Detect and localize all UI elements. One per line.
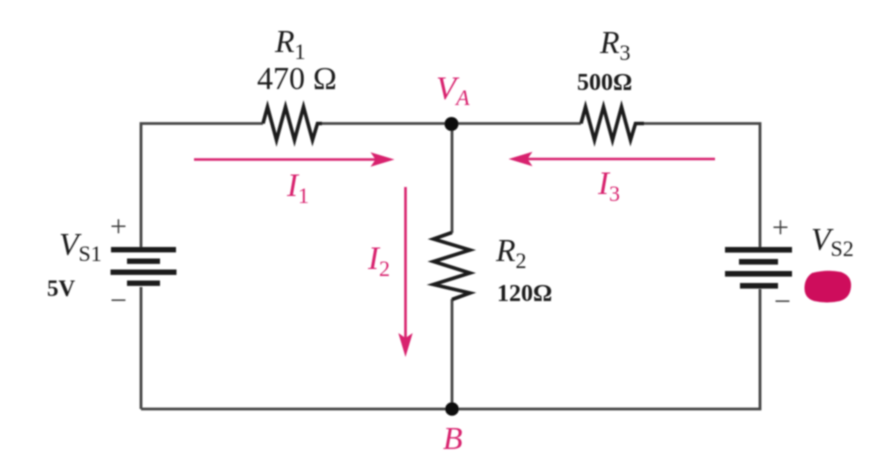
svg-text:−: −	[774, 285, 791, 318]
svg-text:+: +	[110, 210, 127, 243]
svg-text:I2: I2	[367, 241, 390, 281]
resistor R1	[263, 107, 322, 140]
svg-text:I3: I3	[597, 166, 620, 206]
svg-text:VS1: VS1	[59, 226, 102, 266]
current arrow I3	[509, 152, 716, 166]
svg-text:I1: I1	[286, 168, 309, 208]
battery VS1	[111, 247, 177, 286]
redaction blob over VS2 value	[804, 271, 851, 303]
svg-text:5V: 5V	[47, 276, 76, 301]
node A junction dot	[445, 117, 459, 131]
wire node B to bottom-left corner	[141, 408, 452, 411]
resistor R2	[434, 233, 471, 300]
svg-text:R3: R3	[599, 24, 631, 65]
wire R1 to node A	[322, 122, 452, 125]
wire left-top segment (VS1 to top-left corner to R1)	[141, 124, 263, 248]
current arrow I2	[398, 187, 412, 357]
wire top-left segment (left corner to R1)	[140, 287, 143, 409]
battery VS2	[725, 247, 792, 289]
svg-text:470 Ω: 470 Ω	[257, 60, 337, 96]
wire node A to R2	[451, 124, 454, 234]
wire node A to R3	[452, 122, 581, 125]
svg-text:VS2: VS2	[811, 221, 854, 261]
current arrow I1	[194, 152, 395, 166]
resistor R3	[581, 107, 644, 140]
svg-text:120Ω: 120Ω	[497, 281, 552, 307]
svg-text:VA: VA	[436, 71, 470, 110]
wire R2 to node B	[451, 299, 454, 409]
svg-text:R2: R2	[495, 232, 527, 273]
svg-text:+: +	[772, 211, 789, 244]
wire R3 to top-right corner down to VS2	[644, 124, 760, 248]
svg-text:500Ω: 500Ω	[577, 70, 632, 96]
wire VS2 to bottom-right corner to node B	[452, 289, 760, 409]
svg-text:B: B	[443, 420, 463, 456]
node B junction dot	[445, 402, 459, 416]
svg-text:−: −	[110, 284, 127, 317]
svg-text:R1: R1	[274, 23, 306, 64]
